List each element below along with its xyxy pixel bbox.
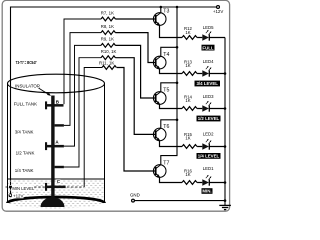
svg-text:+12V: +12V <box>213 9 223 14</box>
svg-text:INSULATOR: INSULATOR <box>15 83 40 88</box>
svg-text:3/4 LEVEL: 3/4 LEVEL <box>196 81 218 86</box>
svg-text:MIN LEVEL: MIN LEVEL <box>12 186 35 191</box>
svg-text:B: B <box>56 99 60 104</box>
svg-text:GND: GND <box>130 192 140 197</box>
svg-text:3/4 TANK: 3/4 TANK <box>15 130 34 135</box>
svg-text:R9, 1K: R9, 1K <box>101 37 114 42</box>
svg-text:T3-T7 = BC547: T3-T7 = BC547 <box>16 60 37 65</box>
svg-text:1/2 TANK: 1/2 TANK <box>16 150 35 155</box>
svg-text:LED3: LED3 <box>203 94 214 99</box>
svg-text:1K: 1K <box>185 30 190 35</box>
svg-text:1/2 LEVEL: 1/2 LEVEL <box>198 116 220 121</box>
svg-text:T5: T5 <box>163 88 169 94</box>
svg-text:FULL TANK: FULL TANK <box>14 102 37 107</box>
svg-text:R8, 1K: R8, 1K <box>101 24 114 29</box>
svg-text:1K: 1K <box>185 98 190 103</box>
svg-text:LED4: LED4 <box>203 59 214 64</box>
svg-text:T3: T3 <box>163 8 169 14</box>
svg-text:LED1: LED1 <box>203 166 214 171</box>
svg-text:1K: 1K <box>185 63 190 68</box>
svg-text:T6: T6 <box>163 124 169 130</box>
svg-text:A: A <box>55 140 59 145</box>
svg-text:MIN.: MIN. <box>202 189 211 194</box>
svg-text:1K: 1K <box>185 136 190 141</box>
svg-text:+12V: +12V <box>13 194 23 199</box>
svg-text:T7: T7 <box>163 161 169 167</box>
svg-text:1/4 LEVEL: 1/4 LEVEL <box>198 154 220 159</box>
svg-text:T4: T4 <box>163 52 169 58</box>
svg-text:R11, 1K: R11, 1K <box>99 60 114 65</box>
svg-text:1K: 1K <box>185 172 190 177</box>
svg-text:FULL: FULL <box>202 45 214 50</box>
svg-text:LED2: LED2 <box>203 131 214 136</box>
svg-text:LED5: LED5 <box>203 25 214 30</box>
svg-text:1/4 TANK: 1/4 TANK <box>15 168 34 173</box>
svg-text:R7, 1K: R7, 1K <box>101 10 114 15</box>
svg-text:R10, 1K: R10, 1K <box>101 49 117 54</box>
